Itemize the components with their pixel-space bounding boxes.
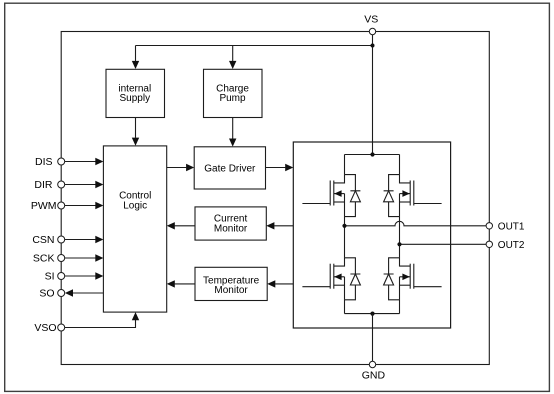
wire OUT2: [400, 243, 487, 245]
svg-text:OUT1: OUT1: [498, 222, 525, 233]
svg-text:Monitor: Monitor: [214, 224, 248, 235]
transistor Q4 (low-side right NMOS with body diode D4): [384, 258, 442, 300]
terminal GND: [369, 361, 375, 367]
svg-text:SO: SO: [39, 288, 54, 300]
node OUT1 junction: [342, 224, 346, 228]
svg-text:SCK: SCK: [33, 253, 55, 265]
wire Q1 drain lead: [344, 155, 346, 175]
wire Q1 source lead to OUT1 node: [344, 217, 346, 226]
block Gate Driver: [194, 147, 265, 189]
wire Control Logic to Gate Driver: [167, 167, 187, 169]
wire Q3 source lead to bottom rail: [344, 300, 346, 314]
wire Q2 drain lead: [399, 155, 401, 175]
block Temperature Monitor: [195, 267, 267, 300]
wire bridge top rail: [345, 154, 400, 156]
wire Q3 drain lead from OUT1 node: [344, 226, 346, 258]
svg-text:Monitor: Monitor: [214, 285, 248, 296]
wire GND drop: [372, 314, 374, 362]
wire Temperature Monitor to Control Logic: [175, 283, 195, 285]
node supply-rail junction: [371, 44, 375, 48]
svg-text:CSN: CSN: [32, 234, 54, 246]
wire VS drop from terminal to bridge top node: [372, 35, 374, 155]
wire Charge Pump to Gate Driver: [232, 118, 234, 139]
transistor Q2 (high-side right NMOS with body diode D2): [384, 175, 442, 217]
svg-text:PWM: PWM: [31, 200, 57, 212]
wire Q2 source lead to OUT2 node: [399, 217, 401, 245]
wire Current Monitor to Control Logic: [175, 225, 195, 227]
svg-text:Logic: Logic: [123, 201, 147, 212]
transistor Q3 (low-side left NMOS with body diode D3): [302, 258, 360, 300]
block Charge Pump: [204, 69, 263, 117]
svg-text:VS: VS: [364, 13, 378, 25]
svg-text:DIR: DIR: [34, 179, 53, 191]
node bridge bottom junction: [370, 312, 374, 316]
block Current Monitor: [195, 207, 266, 240]
terminal OUT1: [486, 223, 492, 229]
wire drop to internal Supply: [135, 46, 137, 62]
svg-text:Supply: Supply: [120, 93, 151, 104]
svg-text:VSO: VSO: [34, 322, 56, 334]
wire supply rail y=45.5: [136, 45, 373, 47]
wire Gate Driver to bridge: [266, 167, 286, 169]
block H-bridge boundary: [293, 142, 450, 328]
wire bridge to Temperature Monitor: [275, 283, 293, 285]
svg-text:GND: GND: [362, 370, 386, 382]
svg-text:DIS: DIS: [35, 156, 53, 168]
node OUT2 junction: [397, 242, 401, 246]
node bridge top junction: [370, 152, 374, 156]
svg-text:SI: SI: [45, 271, 55, 283]
svg-text:Gate Driver: Gate Driver: [204, 164, 256, 175]
wire drop to Charge Pump: [232, 46, 234, 62]
svg-text:OUT2: OUT2: [498, 240, 525, 251]
wire OUT1 with hop over Q2/Q4 branch: [345, 221, 487, 225]
block Control Logic: [103, 146, 166, 312]
wire internal Supply to Control Logic: [135, 118, 137, 138]
wire bridge bottom rail: [345, 313, 400, 315]
svg-text:Pump: Pump: [219, 93, 246, 104]
IC boundary box: [61, 32, 489, 365]
wire Q4 source lead to bottom rail: [399, 300, 401, 314]
terminal VS: [369, 28, 375, 34]
wire Q4 drain lead from OUT2 node: [399, 244, 401, 257]
wire bridge to Current Monitor: [274, 225, 293, 227]
terminal OUT2: [486, 241, 492, 247]
block internal Supply: [106, 69, 165, 117]
transistor Q1 (high-side left NMOS with body diode D1): [302, 175, 360, 217]
